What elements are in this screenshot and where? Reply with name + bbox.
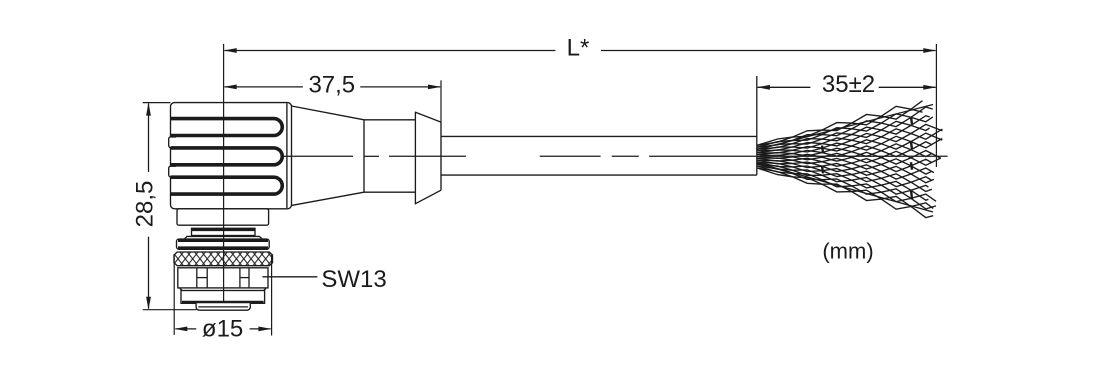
extension line top of 28,5: [143, 102, 171, 104]
knurled coupling ring: [174, 252, 273, 266]
bottom cap: [196, 303, 250, 310]
dimension 28,5 line: [146, 103, 151, 310]
centerline through stripped wire end: [760, 155, 948, 157]
dimension 37,5 line: [224, 85, 441, 90]
leader line SW13: [262, 276, 317, 278]
vertical centerline / extension line through connector axis: [223, 44, 225, 303]
cylinder section left edge: [363, 120, 365, 192]
strain relief flange left edge: [414, 112, 416, 205]
dimension 35±2 line: [757, 85, 936, 90]
svg-text:SW13: SW13: [321, 266, 386, 293]
dash-dot centerline of cable axis: [283, 155, 756, 157]
chamfered washer band: [184, 236, 262, 239]
transition chamfer left: [180, 288, 182, 290]
cable top edge: [441, 135, 757, 137]
strain relief right edge: [440, 122, 442, 190]
left tab between slots 1-2: [169, 137, 176, 148]
connector housing body outline: [171, 103, 292, 209]
svg-text:28,5: 28,5: [131, 181, 158, 228]
lower sleeve band: [181, 291, 265, 304]
gasket band: [192, 228, 256, 235]
extension line / cable end edge: [756, 76, 758, 175]
tapered transition cone top edge: [292, 106, 365, 120]
svg-text:(mm): (mm): [822, 238, 873, 263]
cylinder section bottom edge: [364, 191, 415, 193]
dimension ø15 line: [174, 327, 271, 332]
cable bottom edge: [441, 174, 757, 176]
svg-text:37,5: 37,5: [308, 71, 355, 98]
dimension L* line: [224, 48, 937, 53]
extension line at strain relief: [440, 80, 442, 122]
grip slots of angled connector housing: [171, 119, 283, 194]
cylinder section top edge: [364, 119, 415, 121]
right extension line: [935, 44, 937, 167]
left tab between slots 2-3: [169, 166, 176, 177]
seal ring band: [177, 239, 270, 249]
svg-text:L*: L*: [567, 34, 590, 61]
hex nut SW13 band: [178, 268, 268, 288]
svg-text:ø15: ø15: [202, 315, 243, 342]
extension line right of ø15: [271, 255, 273, 336]
transition chamfer right: [264, 288, 266, 290]
svg-text:35±2: 35±2: [822, 71, 875, 98]
neck band below housing: [177, 209, 269, 225]
extension line bottom of 28,5: [143, 309, 197, 311]
housing inner edge line: [286, 103, 288, 208]
strain relief cone top edge: [415, 112, 441, 122]
tapered transition cone bottom edge: [292, 192, 365, 205]
strain relief cone bottom edge: [415, 190, 441, 204]
extension line left of ø15: [173, 255, 175, 335]
stripped braided wire fan: [757, 101, 942, 218]
